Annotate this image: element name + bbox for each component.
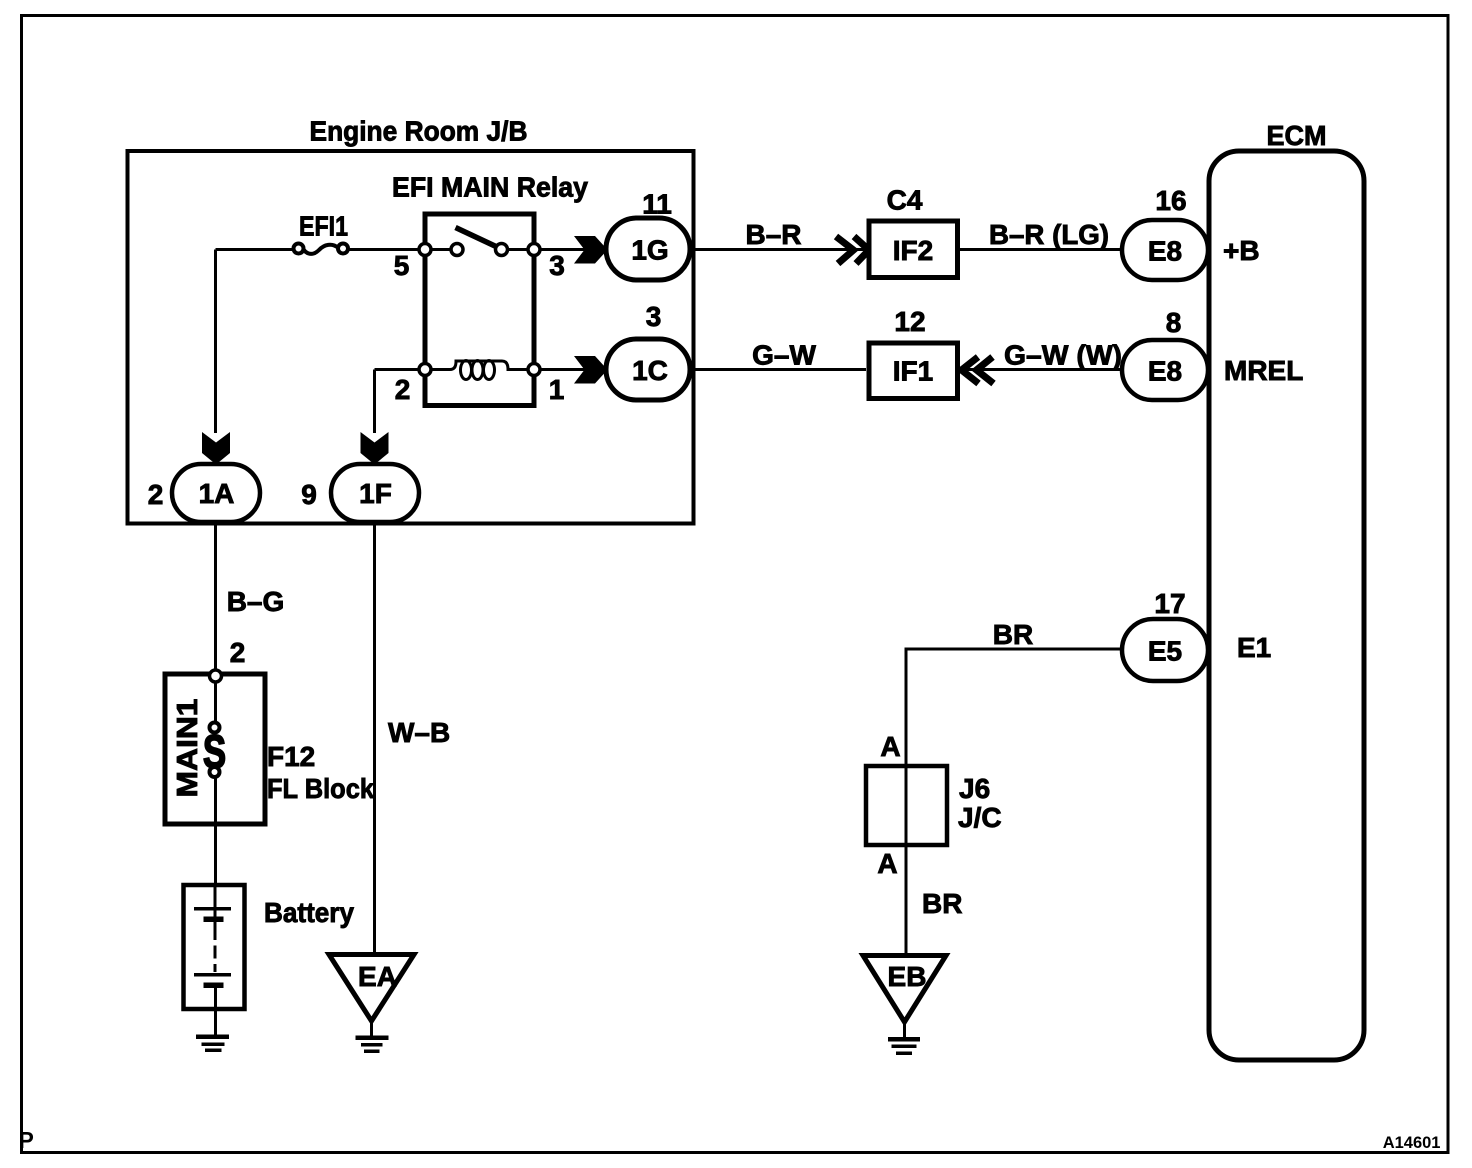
svg-text:9: 9 <box>301 479 317 510</box>
svg-text:P: P <box>19 1127 34 1153</box>
svg-text:1F: 1F <box>359 478 392 509</box>
svg-text:A: A <box>880 731 900 762</box>
svg-text:1A: 1A <box>199 478 235 509</box>
svg-text:G–W: G–W <box>752 340 816 371</box>
svg-text:2: 2 <box>148 479 164 510</box>
svg-text:B–R: B–R <box>745 219 801 250</box>
svg-text:E5: E5 <box>1148 636 1182 667</box>
svg-text:A14601: A14601 <box>1383 1134 1441 1152</box>
svg-text:3: 3 <box>646 301 662 332</box>
svg-text:5: 5 <box>394 250 410 281</box>
svg-text:EA: EA <box>358 961 397 992</box>
svg-text:8: 8 <box>1166 307 1182 338</box>
svg-text:1C: 1C <box>632 355 668 386</box>
svg-text:A: A <box>877 848 897 879</box>
svg-text:J6: J6 <box>959 773 990 804</box>
svg-text:1G: 1G <box>631 235 668 266</box>
svg-text:J/C: J/C <box>958 802 1002 833</box>
svg-text:11: 11 <box>642 189 672 220</box>
svg-text:Battery: Battery <box>264 897 354 928</box>
svg-text:12: 12 <box>894 306 925 337</box>
svg-text:F12: F12 <box>267 741 315 772</box>
svg-text:MREL: MREL <box>1224 355 1303 386</box>
svg-text:Engine Room J/B: Engine Room J/B <box>310 116 528 147</box>
svg-text:FL Block: FL Block <box>267 773 374 804</box>
svg-text:B–G: B–G <box>227 586 285 617</box>
svg-text:C4: C4 <box>887 185 923 216</box>
svg-text:IF1: IF1 <box>893 356 933 387</box>
svg-text:E1: E1 <box>1237 632 1271 663</box>
svg-text:BR: BR <box>993 619 1033 650</box>
svg-text:17: 17 <box>1154 588 1185 619</box>
svg-text:IF2: IF2 <box>893 235 933 266</box>
svg-text:S: S <box>203 726 226 778</box>
svg-text:1: 1 <box>549 374 565 405</box>
svg-text:MAIN1: MAIN1 <box>172 699 204 798</box>
svg-text:EFI1: EFI1 <box>299 211 348 242</box>
svg-text:+B: +B <box>1223 235 1260 266</box>
svg-text:ECM: ECM <box>1267 120 1327 151</box>
svg-text:B–R (LG): B–R (LG) <box>989 219 1109 250</box>
svg-text:E8: E8 <box>1148 236 1182 267</box>
svg-text:G–W (W): G–W (W) <box>1004 340 1122 371</box>
svg-text:16: 16 <box>1155 185 1186 216</box>
svg-text:2: 2 <box>230 637 246 668</box>
svg-text:EFI MAIN Relay: EFI MAIN Relay <box>392 172 588 203</box>
svg-text:2: 2 <box>395 374 411 405</box>
svg-text:3: 3 <box>549 250 565 281</box>
svg-text:EB: EB <box>888 961 927 992</box>
svg-text:E8: E8 <box>1148 356 1182 387</box>
svg-text:BR: BR <box>922 888 962 919</box>
svg-text:W–B: W–B <box>388 717 450 748</box>
